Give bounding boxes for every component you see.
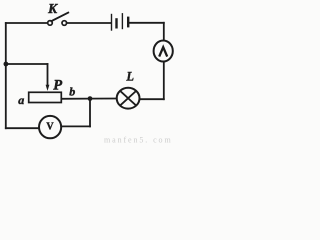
switch K right contact [62, 21, 67, 26]
wire corner to lamp [140, 98, 164, 100]
switch K left contact [48, 21, 53, 26]
battery cell1 long plate [111, 15, 113, 31]
voltmeter V1 body [39, 116, 61, 138]
ammeter A1 body [154, 41, 173, 62]
node junction dot on left rail [4, 62, 9, 67]
battery cell2 long plate [121, 14, 123, 29]
rheostat P body [29, 92, 62, 102]
wire ammeter down to lamp row [163, 61, 165, 99]
wire left rail vertical [5, 23, 7, 128]
svg-text:a: a [18, 93, 24, 107]
wire switch to battery [67, 22, 111, 24]
wire top-left horizontal to switch [6, 22, 48, 24]
wire voltmeter right to riser [61, 125, 90, 127]
lamp L body [117, 88, 140, 109]
wire lamp to junction [90, 98, 117, 100]
svg-text:P: P [53, 78, 62, 94]
rheostat slider arrowhead [46, 85, 50, 91]
switch K blade [51, 13, 68, 22]
svg-text:manfen5. com: manfen5. com [104, 136, 173, 145]
wire battery to top-right corner [129, 22, 164, 24]
svg-text:b: b [69, 85, 75, 99]
rheostat slider stem [47, 64, 49, 86]
wire right rail down to ammeter [163, 23, 165, 41]
wire bottom from rail to voltmeter [6, 127, 39, 129]
node junction dot b [88, 96, 93, 101]
wire branch from left rail to slider [6, 63, 48, 65]
wire junction to rheostat b terminal [61, 98, 91, 100]
ammeter A1 glyph [159, 47, 167, 56]
svg-text:V: V [46, 121, 54, 132]
battery cell2 short plate [127, 18, 129, 26]
lamp L cross [120, 91, 136, 105]
svg-text:K: K [47, 1, 58, 16]
battery cell1 short plate [115, 19, 117, 27]
svg-text:L: L [125, 70, 134, 84]
wire riser up to junction [89, 99, 91, 127]
